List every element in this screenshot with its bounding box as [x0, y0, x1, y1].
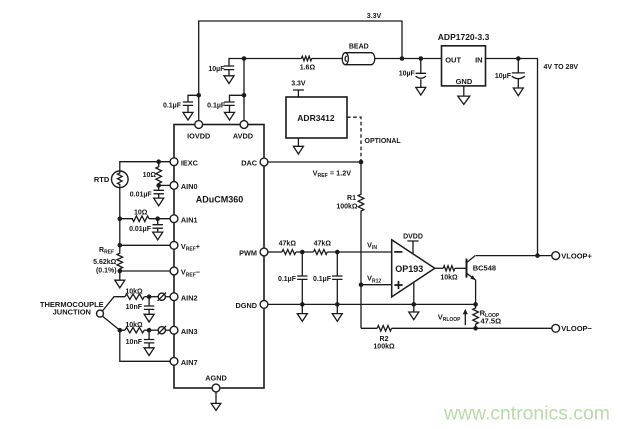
svg-text:0.01µF: 0.01µF: [129, 226, 152, 233]
junction RLOOP bottom: [473, 326, 478, 331]
ground below input 10uF: [513, 88, 523, 96]
pin AIN7: [170, 357, 197, 367]
capacitor 0.1uF at AVDD: [207, 95, 244, 112]
resistor 10k base: [440, 266, 458, 282]
wire AVDD riser to bead line: [243, 59, 245, 121]
resistor 10k AIN2: [125, 288, 144, 299]
capacitor 0.1uF first PWM filter: [278, 252, 308, 304]
svg-text:IEXC: IEXC: [181, 158, 199, 167]
power 3.3V at ADR3412: [291, 81, 306, 98]
junction IOVDD bypass node: [196, 93, 201, 98]
wire collector to VLOOP+: [476, 255, 552, 257]
svg-text:(0.1%): (0.1%): [96, 268, 117, 275]
resistor R1 100k: [336, 162, 363, 285]
pin DAC: [241, 158, 268, 168]
RTD sensor: [94, 171, 128, 188]
wire 3.3V rail from IOVDD up and across to bead output: [199, 21, 402, 120]
svg-text:AIN3: AIN3: [181, 327, 198, 336]
junction emitter / DGND / RLOOP: [473, 302, 478, 307]
wire AIN7 line: [120, 330, 170, 361]
junction first RC node: [300, 250, 305, 255]
svg-text:RTD: RTD: [94, 175, 110, 184]
junction IEXC / 10ohm: [156, 159, 161, 164]
svg-text:100kΩ: 100kΩ: [373, 344, 395, 351]
svg-text:3.3V: 3.3V: [367, 13, 382, 20]
wire AIN1 line: [120, 218, 170, 220]
svg-text:PWM: PWM: [239, 249, 257, 258]
ground below RREF: [115, 271, 125, 288]
junction thermocouple lower / AIN7 branch: [118, 328, 123, 333]
junction VREF+ / RREF: [118, 243, 123, 248]
wire VIN line to op-amp: [327, 251, 391, 253]
svg-text:VLOOP+: VLOOP+: [561, 251, 592, 260]
svg-text:AIN7: AIN7: [181, 358, 198, 367]
wire VLOOP- line right segment: [392, 327, 552, 329]
junction AIN3 filter node: [147, 328, 152, 333]
capacitor 10uF at loop supply input (polarized): [495, 59, 525, 89]
ground below IOVDD 0.1uF: [183, 112, 193, 120]
svg-text:0.1µF: 0.1µF: [278, 276, 297, 283]
svg-text:AGND: AGND: [205, 373, 227, 382]
capacitor 10uF at AVDD supply: [208, 59, 244, 76]
microcontroller U1 ADuCM360: [174, 125, 264, 389]
ground below AIN1 cap: [153, 232, 163, 240]
junction AIN2 filter node: [147, 294, 152, 299]
svg-text:DGND: DGND: [236, 301, 258, 310]
svg-text:ADuCM360: ADuCM360: [196, 195, 244, 205]
ground below op-amp: [409, 304, 419, 319]
svg-text:DAC: DAC: [241, 159, 258, 168]
junction AIN1 filter node: [155, 216, 160, 221]
wire PWM line start: [268, 251, 282, 253]
wire RTD bottom to VREF+ rail: [119, 188, 121, 246]
svg-text:AVDD: AVDD: [233, 131, 253, 140]
pin VREF+: [170, 241, 200, 252]
wire VLOOP- line left segment: [361, 327, 377, 329]
thermocouple junction terminal: [40, 300, 104, 317]
svg-text:4V TO 28V: 4V TO 28V: [544, 64, 579, 71]
svg-text:10µF: 10µF: [399, 70, 416, 77]
wire op-amp output: [435, 267, 443, 269]
svg-text:OUT: OUT: [445, 55, 461, 64]
svg-text:47kΩ: 47kΩ: [279, 240, 297, 247]
wire bead line left: [244, 58, 301, 60]
pin AGND: [205, 373, 227, 392]
svg-text:R1: R1: [347, 195, 356, 202]
junction input cap tap: [516, 56, 521, 61]
wire 10k to AIN3: [144, 329, 158, 331]
svg-text:10nF: 10nF: [126, 304, 143, 311]
svg-text:10µF: 10µF: [208, 66, 225, 73]
junction R1/R2 node on VR12: [359, 282, 364, 287]
op-amp U4 OP193: [392, 240, 435, 297]
junction VREF- / ground: [118, 269, 123, 274]
ground below 10uF: [224, 76, 234, 84]
pin IOVDD: [187, 121, 210, 141]
svg-text:R2: R2: [380, 336, 389, 343]
svg-text:OPTIONAL: OPTIONAL: [365, 138, 402, 145]
junction cap1 on DGND: [300, 302, 305, 307]
capacitor 0.01uF at AIN1: [129, 219, 163, 233]
resistor 47k second: [314, 240, 332, 254]
ground below DGND at cap2: [332, 304, 342, 321]
wire thermocouple upper leg: [102, 297, 125, 311]
wire thermocouple lower leg: [102, 316, 125, 330]
junction cap2 on DGND: [335, 302, 340, 307]
svg-text:47kΩ: 47kΩ: [314, 240, 332, 247]
svg-text:DVDD: DVDD: [403, 233, 423, 240]
svg-text:0.1µF: 0.1µF: [163, 103, 182, 110]
ferrite bead: [342, 43, 375, 64]
node VRLOOP label and arrow: [438, 309, 468, 326]
wire VR12 to op-amp plus: [361, 284, 392, 286]
junction loop supply / VLOOP+: [535, 253, 540, 258]
resistor RREF 5.62k 0.1%: [93, 245, 122, 274]
wire IEXC to RTD column: [120, 162, 170, 171]
terminal VLOOP+: [552, 251, 593, 260]
svg-text:10kΩ: 10kΩ: [440, 274, 458, 281]
wire 10k to base: [455, 267, 466, 269]
junction AIN0 filter node: [156, 183, 161, 188]
capacitor 10uF at regulator output: [399, 59, 426, 88]
ground below AGND: [211, 392, 221, 411]
svg-text:47.5Ω: 47.5Ω: [481, 317, 502, 326]
svg-text:10Ω: 10Ω: [143, 172, 157, 179]
resistor 47k first: [279, 240, 297, 254]
pin AVDD: [233, 121, 253, 141]
svg-text:AIN1: AIN1: [181, 215, 198, 224]
junction RTD rail / AIN1: [118, 216, 123, 221]
wire emitter down to RLOOP: [475, 280, 477, 305]
svg-text:JUNCTION: JUNCTION: [53, 308, 91, 317]
transistor Q1 BC548: [467, 256, 497, 281]
resistor 10k AIN3: [125, 322, 144, 333]
pin AIN3: [170, 326, 197, 336]
reference U3 ADR3412: [286, 97, 347, 138]
svg-text:10kΩ: 10kΩ: [125, 288, 143, 295]
wire ADP1720 IN to 4V-28V rail corner: [486, 59, 538, 256]
capacitor 0.1uF at IOVDD: [163, 95, 199, 112]
resistor R2 100k: [373, 326, 395, 351]
svg-text:10kΩ: 10kΩ: [125, 322, 143, 329]
capacitor 0.1uF second PWM filter: [313, 252, 343, 304]
resistor 10ohm AIN1: [132, 209, 149, 221]
pin IEXC: [170, 158, 199, 168]
wire bead to ADP1720 OUT: [375, 58, 442, 60]
junction 3.3V rail tap: [400, 56, 405, 61]
capacitor 10nF at AIN2: [126, 297, 155, 315]
junction AVDD bypass node: [242, 93, 247, 98]
svg-text:ADP1720-3.3: ADP1720-3.3: [438, 32, 490, 42]
ground below ADR3412: [293, 138, 303, 154]
svg-text:GND: GND: [456, 77, 473, 86]
capacitor 10nF at AIN3: [126, 330, 155, 348]
pin AIN0: [170, 182, 197, 192]
svg-text:www.cntronics.com: www.cntronics.com: [443, 403, 610, 425]
ground at ADP1720 GND pin: [458, 86, 470, 105]
svg-text:IN: IN: [475, 55, 483, 64]
pin PWM: [239, 248, 268, 258]
svg-text:3.3V: 3.3V: [291, 81, 306, 88]
svg-text:OP193: OP193: [395, 264, 423, 274]
wire AIN0 stub: [159, 184, 170, 186]
junction bead-line / AVDD riser: [242, 56, 247, 61]
ground below DGND at cap1: [297, 304, 307, 321]
svg-text:1.6Ω: 1.6Ω: [300, 65, 316, 72]
svg-text:AIN2: AIN2: [181, 293, 198, 302]
wire VREF+ line: [120, 244, 170, 246]
wire between 47k resistors: [296, 251, 314, 253]
svg-text:10Ω: 10Ω: [134, 209, 148, 216]
svg-text:0.1µF: 0.1µF: [313, 276, 332, 283]
svg-text:100kΩ: 100kΩ: [336, 203, 358, 210]
junction 10uF tap at regulator output: [419, 56, 424, 61]
svg-text:BEAD: BEAD: [349, 43, 369, 50]
capacitor 0.01uF at AIN0: [130, 185, 164, 198]
wire VREF- line: [120, 270, 170, 272]
svg-text:AIN0: AIN0: [181, 182, 198, 191]
ground below AIN3 cap: [144, 348, 154, 356]
resistor 1.6ohm: [300, 56, 316, 71]
wire 10k to AIN2: [144, 296, 158, 298]
junction DAC / R1 / optional: [359, 160, 364, 165]
svg-text:0.01µF: 0.01µF: [130, 192, 153, 199]
svg-text:10µF: 10µF: [495, 73, 512, 80]
wire 1.6ohm to bead: [312, 58, 343, 60]
pin DGND: [236, 301, 268, 311]
svg-text:10nF: 10nF: [126, 339, 143, 346]
wire R1R2 node down to R2: [360, 285, 362, 329]
junction second RC node: [335, 250, 340, 255]
svg-text:VLOOP−: VLOOP−: [561, 324, 592, 333]
resistor RLOOP 47.5: [473, 304, 501, 328]
ESD switch symbol AIN3: [158, 326, 170, 334]
ground below AIN0 cap: [154, 198, 164, 206]
pin AIN1: [170, 215, 197, 225]
resistor 10ohm IEXC-AIN0: [143, 162, 162, 186]
ground below AIN2 cap: [144, 314, 154, 322]
svg-text:BC548: BC548: [473, 264, 496, 273]
regulator U2 ADP1720-3.3: [438, 32, 490, 86]
pin VREF-: [170, 267, 200, 278]
pin AIN2: [170, 293, 197, 303]
svg-text:0.1µF: 0.1µF: [207, 103, 226, 110]
svg-text:IOVDD: IOVDD: [187, 131, 210, 140]
power DVDD at op-amp: [403, 233, 423, 254]
ground below output 10uF: [416, 87, 426, 95]
ground below AVDD 0.1uF: [225, 112, 235, 120]
ESD switch symbol AIN2: [158, 293, 170, 301]
svg-text:ADR3412: ADR3412: [297, 113, 335, 123]
terminal VLOOP-: [552, 324, 593, 333]
wire DGND line: [268, 303, 475, 305]
svg-text:5.62kΩ: 5.62kΩ: [93, 259, 117, 266]
wire dashed optional connection: [347, 117, 361, 160]
junction op-amp V- on DGND: [412, 302, 417, 307]
wire op-amp V- to DGND: [413, 282, 415, 304]
wire DAC to R1 node: [268, 161, 361, 163]
